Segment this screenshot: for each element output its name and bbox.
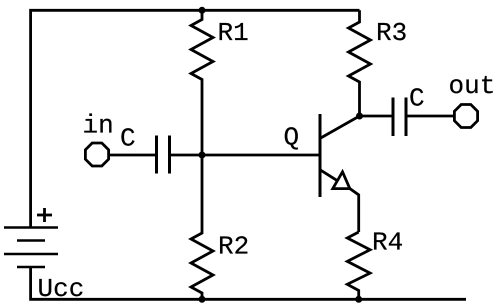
- junction dot: base node (R1/R2/base wire): [199, 152, 206, 159]
- wire: output capacitor to output terminal: [407, 115, 454, 118]
- resistor R2: [191, 155, 213, 299]
- svg-text:R1: R1: [218, 18, 249, 48]
- svg-text:in: in: [83, 111, 114, 141]
- svg-text:R4: R4: [372, 228, 403, 258]
- svg-text:R3: R3: [376, 18, 407, 48]
- svg-text:C: C: [409, 84, 425, 114]
- transistor Q: emitter lead down to R4: [321, 170, 359, 232]
- wire: input terminal to coupling capacitor: [108, 154, 156, 157]
- wire: positive supply rail (battery + up the left side, across the top to R3): [31, 10, 360, 228]
- output terminal "out" (octagon pad): [454, 105, 477, 128]
- svg-text:out: out: [449, 71, 496, 101]
- wire: battery negative terminal down and ground rail across the bottom: [31, 267, 466, 299]
- resistor R1: [191, 10, 213, 155]
- input terminal "in" (octagon pad): [85, 143, 108, 166]
- wire: input capacitor to base node: [171, 154, 204, 157]
- battery B1 (Ucc source): plates long/short/long/short: [4, 228, 58, 268]
- wire: base node to transistor base: [202, 154, 319, 157]
- resistor R3: [349, 10, 371, 116]
- capacitor C (input coupling), plates: [157, 136, 170, 174]
- label + (battery positive mark): [37, 208, 52, 222]
- wire: collector node to output capacitor: [360, 115, 392, 118]
- capacitor C (output coupling), plates: [393, 98, 406, 137]
- junction dot: collector node: [356, 113, 363, 120]
- transistor Q: collector lead: [321, 116, 360, 138]
- transistor Q: base bar: [319, 114, 322, 197]
- svg-text:C: C: [120, 124, 136, 154]
- junction dot: R4 to ground rail: [355, 296, 362, 303]
- svg-text:R2: R2: [218, 232, 249, 262]
- junction dot: R2 to ground rail: [199, 296, 206, 303]
- transistor Q: emitter arrow (open triangle): [333, 172, 350, 189]
- resistor R4: [347, 232, 370, 299]
- junction dot: top of R1 on supply rail: [199, 7, 206, 14]
- svg-text:Ucc: Ucc: [38, 274, 85, 304]
- svg-text:Q: Q: [284, 123, 300, 153]
